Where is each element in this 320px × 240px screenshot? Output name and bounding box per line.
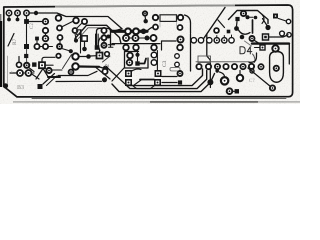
pad plug K2 (26, 70, 32, 76)
trace arc bracket (98, 38, 100, 51)
pad bold U1 (221, 77, 228, 84)
pad row R1 (196, 64, 201, 69)
pad G1 (153, 15, 158, 20)
separator v2 (207, 34, 211, 80)
pad ring V2a (58, 35, 63, 40)
pad square ring T1 (126, 71, 131, 76)
pad W1 (241, 11, 246, 16)
wire band left (114, 29, 122, 31)
bus trace 2 (126, 71, 207, 89)
pad ring B1 (17, 57, 22, 68)
label Z mark (105, 64, 111, 67)
pad bold U3 (237, 71, 243, 82)
bus trace 3 (112, 74, 215, 92)
svg-text:C7: C7 (249, 79, 255, 84)
wire diag D (112, 68, 124, 81)
wire long diag right (248, 68, 271, 87)
pad bold U2 (227, 88, 233, 94)
trace R7 diagonal (8, 34, 14, 47)
pad ring X4 (250, 36, 255, 41)
pad Q2 (198, 38, 203, 43)
wire long mid (112, 43, 160, 45)
pad square ring S7 (97, 53, 103, 59)
label R7 (12, 38, 18, 45)
wire C1b to D1a (63, 22, 73, 27)
pad Q5 (222, 36, 227, 44)
paper background (0, 0, 300, 104)
wire vert x252 (252, 20, 254, 33)
pad square ring T3 (155, 71, 160, 76)
trace trapezoid inner (262, 15, 264, 24)
wire diag B (107, 67, 127, 85)
pad square S13 (227, 30, 231, 34)
pad square ring T4 (155, 80, 160, 85)
pad square S15 (260, 45, 265, 50)
trace T thick (140, 79, 154, 81)
trace box outline (125, 52, 149, 69)
trace lambda (36, 69, 49, 80)
rail line (196, 61, 249, 63)
wire J13 diag (263, 19, 268, 26)
junction dot J5 (86, 54, 91, 59)
paper noise (0, 0, 300, 104)
wire J9 down (209, 85, 211, 88)
corner bolt dot (3, 83, 8, 88)
pad ring C1a (56, 15, 62, 21)
component body R2 (160, 15, 177, 22)
junction dot J9 (207, 79, 213, 85)
trace bump outline (75, 25, 121, 43)
scanner edge bar left (0, 14, 2, 87)
pad O4 (175, 62, 180, 67)
pad square ring T2 (126, 80, 131, 85)
wire top bus (30, 13, 123, 29)
trace thick y43 (252, 42, 289, 44)
wire notch (218, 20, 225, 28)
wire I1 right (79, 56, 86, 58)
wire vertical pair x97 (96, 34, 99, 45)
pad H2 (133, 35, 139, 41)
wire S7 up (99, 51, 101, 53)
pad square ring S14 (263, 34, 269, 40)
pad G4 (178, 25, 183, 30)
trace loop stadium (270, 52, 284, 83)
pad square S2 (24, 44, 29, 49)
pad ring B2 (24, 63, 29, 68)
wire to J6 (99, 67, 103, 68)
pad ring D1b (73, 28, 78, 33)
wire S15 left (255, 47, 260, 49)
junction dot J12 (234, 26, 239, 31)
pad P3 (24, 10, 29, 19)
border bottom thick (32, 97, 286, 99)
pad square S11 (273, 14, 278, 19)
trace T1 arc (131, 69, 141, 71)
trace pentagon right (185, 15, 191, 33)
pad square S4b (32, 62, 36, 66)
label S3 small (11, 69, 13, 74)
wire long y75 (58, 71, 97, 75)
pad ring C1b (57, 26, 62, 31)
pad ring L1 (46, 68, 51, 73)
wire diag up (103, 56, 111, 62)
label C3 (162, 60, 168, 67)
pad H3 (151, 35, 157, 41)
pad ring W2 (178, 71, 183, 76)
pad H4 (123, 45, 129, 51)
pad E1 (101, 28, 106, 48)
wire T diag (134, 80, 142, 86)
trace T2 tail (131, 85, 155, 89)
pad bold Y1 (272, 45, 278, 51)
pad ring mid (214, 28, 219, 33)
junction dot J11 (254, 16, 258, 20)
pad H1 (123, 35, 129, 41)
inner faint line left (7, 56, 9, 86)
wire cluster right (109, 45, 115, 48)
pad ring B4 (56, 54, 60, 58)
wire H-row (129, 37, 145, 39)
junction dot J2 (82, 47, 87, 52)
pad small V1 (250, 69, 254, 73)
wire S2 down (24, 49, 28, 62)
pad square S3 (35, 37, 39, 44)
trace thick y77 (48, 76, 60, 78)
pad G3 (153, 25, 158, 30)
pad ring A1 (34, 44, 42, 49)
component outline small (170, 68, 180, 71)
wire S12 down (236, 22, 239, 27)
trace inner bump (97, 28, 111, 47)
pad square ring S4 (39, 62, 45, 68)
junction dot J14 (240, 35, 245, 40)
pad band bumps (125, 28, 146, 34)
wire S1 to R-pad (29, 21, 42, 23)
svg-text:2: 2 (105, 64, 111, 67)
wire F1 down (144, 16, 147, 19)
wire long y81 (56, 80, 102, 82)
junction dot J15 (69, 49, 73, 53)
label D4 (240, 47, 252, 54)
pad ring D2 (78, 19, 88, 28)
pad H5 (133, 45, 139, 51)
pad row R6 (240, 64, 245, 69)
wire band curve (148, 27, 154, 30)
board outline (4, 5, 293, 97)
pad Q1 (191, 38, 196, 43)
pad square S1 (24, 19, 29, 24)
svg-text:R7: R7 (12, 38, 18, 45)
pad O2 (151, 60, 157, 66)
svg-text:C2: C2 (30, 23, 35, 29)
pad Q4 (214, 36, 219, 44)
pad square S16 (178, 80, 182, 84)
trace u curve (239, 30, 251, 34)
pad row R2 (206, 64, 211, 69)
wire S5 down (84, 42, 86, 47)
wire V2 diag (62, 49, 69, 51)
pad square S8 (38, 84, 43, 89)
wire S8 diagonals (43, 74, 57, 86)
pad square bracket (77, 30, 82, 35)
pad row R8 (258, 64, 263, 69)
pad Q3 (207, 38, 212, 43)
separator v1 (190, 34, 192, 71)
pad bold I2 (72, 63, 78, 69)
wire vertical x80 (80, 30, 82, 53)
pad bold I1 (72, 53, 78, 59)
junction dot J10 (246, 15, 250, 19)
label C2 (30, 23, 35, 29)
trace diag long (204, 8, 225, 39)
pad ring A2 (43, 34, 49, 42)
pad P1 (6, 10, 11, 21)
wire B2 diag (29, 68, 34, 72)
pad row R4 (223, 64, 228, 69)
trace thick band (112, 30, 147, 33)
pad row R7 (249, 64, 254, 69)
pad row R3 (215, 64, 220, 73)
wire U1 link (220, 72, 225, 77)
wire S14 right (269, 35, 289, 37)
pad O1 (151, 52, 157, 58)
wire K tail (33, 75, 40, 80)
wire diag left of I1 (63, 55, 72, 69)
wire S11 diag (279, 19, 287, 22)
pad N1 (127, 53, 133, 59)
wire K row (10, 72, 34, 74)
junction dot J3 (144, 19, 148, 23)
pad ring P4b (177, 45, 183, 51)
wire right corner (288, 45, 290, 65)
pad ring I3 (105, 52, 110, 57)
trace arc under D4 (253, 54, 255, 63)
junction dot J6 (103, 66, 109, 72)
pad ring D1a (73, 18, 79, 24)
svg-text:C3: C3 (162, 60, 168, 67)
trace trapezoid (229, 11, 269, 24)
pad ring V2b (57, 44, 62, 49)
label C7 (249, 79, 255, 84)
pad plug K1 (17, 70, 23, 76)
junction dot J8 (135, 51, 139, 62)
wire corner (162, 41, 177, 50)
junction dot J4 (145, 36, 150, 41)
pad row R5 (232, 64, 237, 69)
pad O3 (175, 54, 180, 59)
trace I2 thick (79, 65, 99, 68)
wire D4 diag (245, 41, 252, 46)
pad loop center (274, 66, 279, 71)
pad G2 (178, 15, 183, 20)
wire diag A (96, 68, 110, 80)
wire U2 right (232, 90, 234, 92)
border top fade (55, 5, 235, 6)
pad square ring S5 (82, 36, 87, 41)
component edge faint (160, 22, 177, 27)
pad R1a (43, 19, 48, 24)
pad H6 (151, 45, 157, 51)
pad ring X3 (287, 33, 291, 37)
pad ring X1 (286, 19, 290, 23)
svg-text:s: s (11, 69, 13, 74)
bracket line (156, 51, 158, 71)
junction dot J7 (102, 77, 107, 82)
pad R1b (43, 28, 48, 33)
pad square S12 (235, 17, 239, 21)
junction dot J1 (34, 11, 38, 15)
pad square S10 (235, 89, 239, 93)
bus trace 1 (128, 69, 203, 86)
wire S1 down (26, 24, 28, 44)
label B3 (17, 85, 24, 91)
pad square S6 (95, 45, 100, 50)
junction dot J13 (265, 25, 270, 30)
pad N2 (127, 60, 133, 66)
pad left of cluster (107, 35, 111, 39)
wire L1 right (52, 69, 62, 71)
wire W right (250, 16, 254, 18)
pad ring A3 (43, 44, 53, 49)
scanner line bottom (13, 101, 300, 103)
pad P2 (15, 10, 20, 21)
pad ring X2 (280, 31, 285, 36)
wire W2 left (162, 76, 177, 78)
wire cluster stems (126, 44, 136, 45)
pad ring M2 (69, 70, 74, 75)
trace S4 corner (42, 57, 55, 62)
wire X4 diag (255, 41, 262, 45)
trace rail corner (249, 53, 257, 62)
wire J5 right (91, 55, 97, 57)
pad F1 (143, 11, 147, 15)
pad ring P4a (178, 37, 184, 43)
wire S4 right (45, 64, 53, 66)
junction dot J16 (74, 34, 78, 43)
pad ring M1 (102, 69, 107, 74)
wire V2 stem (59, 40, 61, 44)
component box rail (198, 56, 211, 63)
trace N thick (140, 59, 146, 64)
svg-text:B3: B3 (17, 85, 24, 91)
pad ring Z1 (270, 85, 275, 90)
pad Q6 (229, 35, 234, 43)
pad square S9 (135, 61, 139, 65)
wire S16 left (162, 82, 177, 84)
